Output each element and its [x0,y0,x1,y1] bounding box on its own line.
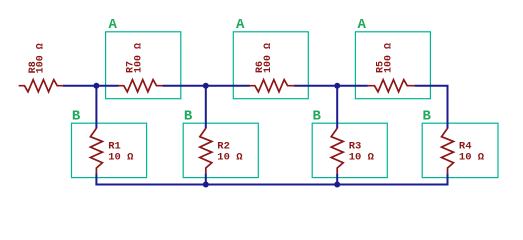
svg-text:10 Ω: 10 Ω [459,152,485,164]
svg-text:100 Ω: 100 Ω [36,43,47,73]
box B (around R3) [312,123,387,177]
svg-text:B: B [423,109,432,125]
wire top rail segment R8 to R7 [63,85,119,87]
box B (around R1) [72,123,147,177]
resistor R5 [367,80,415,92]
wire R2 column bottom [205,173,207,184]
wire R3 column top [336,85,338,129]
svg-text:B: B [184,109,193,125]
wire top rail segment R6 to R5 [294,85,368,87]
svg-text:B: B [72,109,81,125]
svg-text:10 Ω: 10 Ω [108,152,134,164]
resistor R7 [118,80,163,92]
resistor R6 [249,80,294,92]
resistor R3 [331,128,343,173]
resistor R8 [19,80,64,92]
junction node bottom R2 [203,182,209,188]
junction node top R1 [93,83,99,89]
wire R4 column bottom [447,173,449,184]
junction node bottom R3 [334,182,340,188]
svg-text:100 Ω: 100 Ω [263,43,274,73]
wire R4 column top [447,86,449,129]
svg-text:A: A [236,17,245,33]
svg-text:100 Ω: 100 Ω [133,43,144,73]
wire R3 column bottom [336,173,338,184]
resistor R4 [442,128,454,173]
resistor R2 [200,128,212,173]
wire R2 column top [205,85,207,129]
wire bottom rail [95,184,448,186]
wire top rail segment R5 to right corner [415,86,448,129]
box B (around R4) [422,123,498,177]
resistor R1 [90,128,102,173]
wire top rail segment R7 to R6 [163,85,250,87]
svg-text:B: B [313,109,322,125]
box A (around R7) [106,32,181,99]
wire R1 column bottom [95,173,97,184]
box A (around R5) [355,32,430,99]
svg-text:100 Ω: 100 Ω [383,43,394,73]
svg-text:10 Ω: 10 Ω [217,152,243,164]
junction node top R2 [203,83,209,89]
svg-text:A: A [358,17,367,33]
wire R1 column top [95,85,97,129]
svg-text:A: A [109,17,118,33]
box A (around R6) [233,32,308,99]
junction node top R3 [334,83,340,89]
svg-text:10 Ω: 10 Ω [349,152,375,164]
box B (around R2) [183,123,258,177]
